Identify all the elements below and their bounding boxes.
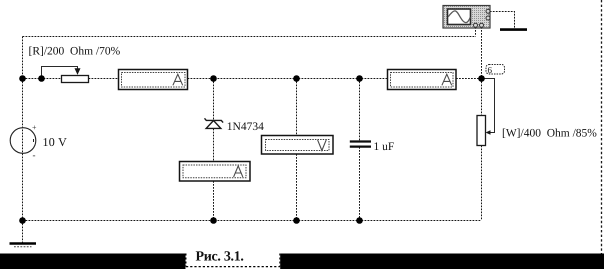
- node junction bottom voltmeter: [293, 217, 300, 224]
- wire top horizontal: [23, 36, 476, 38]
- wire scope left terminal drop: [475, 27, 477, 37]
- svg-text:10 V: 10 V: [43, 135, 68, 149]
- svg-text:+: +: [32, 123, 37, 132]
- node junction voltmeter top: [293, 75, 300, 82]
- node junction bottom zener: [210, 217, 217, 224]
- node junction capacitor top: [356, 75, 363, 82]
- caption box: [186, 245, 281, 269]
- wire scope to ground: [490, 12, 515, 29]
- voltmeter V1: [262, 136, 334, 155]
- ammeter A2: [180, 162, 251, 182]
- zener diode D1 1N4734: [205, 118, 224, 128]
- ammeter A3: [388, 70, 457, 90]
- svg-text:-: -: [33, 150, 36, 160]
- wire ground stem bottom-left: [22, 221, 24, 243]
- voltage source V1: [10, 123, 37, 160]
- op oscilloscope XSC1: [443, 6, 490, 29]
- ammeter A1: [119, 70, 188, 90]
- frame dashed right border: [601, 0, 603, 254]
- node junction zener top: [210, 75, 217, 82]
- wire scope right terminal to node: [481, 27, 483, 79]
- ground oscilloscope: [500, 28, 527, 31]
- node junction R wiper tap: [38, 75, 45, 82]
- svg-text:1N4734: 1N4734: [227, 121, 264, 133]
- caption text: [196, 250, 244, 265]
- value label [R]/200 Ohm /70%: [29, 46, 121, 58]
- wire voltmeter branch vertical: [296, 79, 298, 221]
- potentiometer W body: [477, 116, 486, 146]
- wire zener branch vertical: [213, 79, 215, 221]
- node label bubble 6: [486, 65, 505, 75]
- svg-text:Рис. 3.1.: Рис. 3.1.: [196, 250, 244, 265]
- node junction left rail: [19, 75, 26, 82]
- wire capacitor branch vertical: [359, 79, 361, 221]
- wire bottom rail: [23, 220, 482, 222]
- wire potentiometer W wiper: [482, 79, 495, 135]
- capacitor C1: [350, 142, 371, 147]
- value label [W]/400 Ohm /85%: [502, 128, 597, 140]
- wire left rail vertical: [22, 37, 24, 221]
- wire potentiometer R wiper: [42, 67, 81, 79]
- value label 1N4734: [227, 121, 264, 133]
- svg-text:6: 6: [488, 65, 493, 75]
- wire right vertical through pot W: [481, 79, 483, 221]
- node junction scope/pot W: [478, 75, 485, 82]
- svg-text:[W]/400 Ohm /85%: [W]/400 Ohm /85%: [502, 128, 597, 140]
- value label 1 uF: [374, 141, 395, 153]
- value label 10 V: [43, 135, 68, 149]
- black bar bottom: [0, 254, 604, 269]
- svg-text:[R]/200 Ohm /70%: [R]/200 Ohm /70%: [29, 46, 121, 58]
- node junction bottom left: [19, 217, 26, 224]
- resistor (potentiometer) R body: [62, 76, 89, 83]
- wire middle rail segments: [23, 78, 482, 80]
- ground bottom-left: [10, 244, 37, 247]
- svg-text:1 uF: 1 uF: [374, 141, 395, 153]
- node junction bottom capacitor: [356, 217, 363, 224]
